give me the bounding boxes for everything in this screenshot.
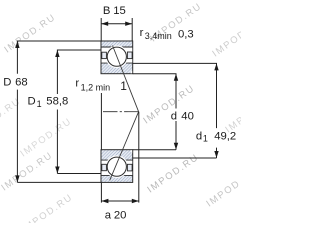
contact angle line bottom: [110, 112, 139, 181]
dimension D bottom extension: [17, 181, 101, 183]
dimension a line: [101, 200, 138, 202]
svg-text:1,2 min: 1,2 min: [81, 82, 111, 92]
arrowhead B right: [125, 22, 132, 26]
svg-text:0,3: 0,3: [178, 28, 194, 40]
watermark IMPOD.RU bottom-right: [204, 166, 260, 210]
watermark IMPOD.RU mid-left: [18, 116, 74, 160]
inner ring shoulder line (bottom section): [101, 159, 133, 161]
dimension d1 top elbow: [133, 63, 217, 128]
dimension d1 bottom extension: [133, 157, 217, 159]
cage bar right (top section): [127, 52, 132, 59]
svg-text:1: 1: [37, 99, 42, 109]
svg-text:B: B: [103, 5, 111, 17]
dimension B left extension line: [100, 18, 102, 41]
bore chamfer notch (bottom section): [131, 150, 133, 153]
svg-text:3,4min: 3,4min: [145, 31, 172, 41]
arrowhead d1 bottom: [214, 151, 218, 158]
dimension B right extension line: [131, 18, 133, 41]
svg-text:1: 1: [120, 79, 127, 93]
dimension d1 vertical line: [216, 148, 218, 158]
ball (bottom section): [107, 157, 126, 176]
watermark IMPOD.RU right-mid: [223, 92, 279, 136]
svg-text:D: D: [3, 77, 11, 89]
svg-text:d: d: [196, 130, 202, 142]
arrowhead D top: [15, 41, 19, 48]
dimension D1 top elbow: [57, 50, 101, 94]
svg-text:15: 15: [113, 5, 126, 17]
watermark IMPOD.RU bottom-edge: [19, 192, 75, 236]
arrowhead d bottom: [174, 143, 178, 150]
arrowhead B left: [101, 22, 108, 26]
watermark IMPOD.RU lower-left: [0, 150, 55, 194]
arrowhead a left: [101, 199, 108, 203]
watermark IMPOD.RU left-edge-tail: [0, 96, 23, 140]
dimension D vertical line: [16, 90, 18, 183]
dimension D1 bottom extension: [57, 173, 101, 175]
svg-text:D: D: [28, 96, 36, 108]
arrowhead d1 top: [214, 63, 218, 70]
arrowhead D bottom: [15, 175, 19, 182]
svg-text:49,2: 49,2: [214, 130, 236, 142]
svg-text:d: d: [171, 111, 177, 123]
dimension d top elbow: [133, 74, 176, 109]
dimension d vertical line: [175, 121, 177, 150]
outer ring raceway line (bottom section): [101, 174, 133, 176]
bearing bottom cross-section outline: [101, 150, 133, 183]
cage bar left (top section): [102, 52, 107, 58]
dimension B line: [101, 23, 132, 25]
contact angle line top: [113, 46, 139, 112]
bore chamfer notch (top section): [131, 70, 133, 73]
watermark IMPOD.RU center: [141, 83, 197, 127]
arrowhead d top: [174, 74, 178, 81]
ring gap white band (top section): [102, 48, 133, 63]
svg-text:r: r: [140, 27, 144, 39]
dimension D top elbow: [17, 41, 101, 74]
dimension D1 vertical line: [56, 110, 58, 174]
cage bar left (bottom section): [102, 164, 107, 170]
arrowhead D1 top: [55, 50, 59, 57]
outer ring raceway line (top section): [101, 46, 133, 48]
svg-text:58,8: 58,8: [46, 96, 68, 108]
watermark IMPOD.RU bottom-center: [145, 152, 201, 196]
raceway groove (bottom section): [106, 155, 129, 178]
cage bar right (bottom section): [127, 164, 132, 171]
axis centerline: [103, 111, 139, 113]
svg-text:a: a: [105, 209, 112, 221]
bearing top cross-section outline: [101, 41, 133, 74]
arrowhead a right: [132, 199, 139, 203]
svg-text:r: r: [75, 78, 79, 90]
dimension d bottom extension: [133, 149, 176, 151]
inner ring shoulder line (top section): [101, 62, 133, 64]
ball (top section): [107, 47, 126, 66]
arrowhead D1 bottom: [55, 167, 59, 174]
dimension a left extension line (bearing face line): [100, 93, 102, 203]
watermark IMPOD.RU top-right: [148, 1, 204, 45]
svg-text:1: 1: [203, 134, 208, 144]
svg-text:40: 40: [181, 111, 194, 123]
watermark IMPOD.RU right-edge: [210, 16, 266, 60]
svg-text:20: 20: [114, 209, 127, 221]
watermark IMPOD.RU top-left: [2, 12, 58, 56]
ring gap white band (bottom section): [102, 161, 133, 175]
raceway groove (top section): [106, 45, 129, 68]
svg-text:68: 68: [15, 77, 28, 89]
dimension a right extension line: [138, 112, 140, 203]
